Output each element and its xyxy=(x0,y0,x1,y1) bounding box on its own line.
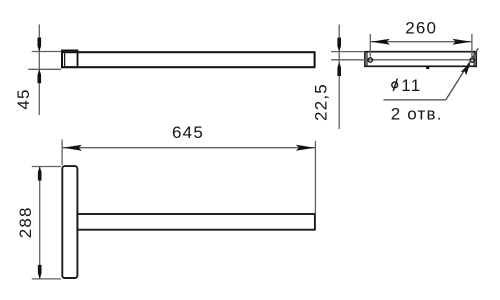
dimension 645: left arrow xyxy=(63,145,82,151)
svg-text:260: 260 xyxy=(405,19,437,38)
svg-text:45: 45 xyxy=(14,88,33,109)
dimension 288: bottom arrow xyxy=(38,265,42,279)
svg-text:22,5: 22,5 xyxy=(312,83,331,121)
plan-view rail outline xyxy=(365,52,476,67)
dimension 260: right extension line xyxy=(471,34,473,58)
dimension 22,5: lower arrow xyxy=(337,62,341,76)
dimension 645: dimension line xyxy=(62,147,315,149)
diameter symbol xyxy=(392,79,398,91)
dimension 45: upper arrow xyxy=(38,38,42,52)
dimension 645: right arrow xyxy=(296,145,315,151)
plan-view left end inner line xyxy=(366,52,368,67)
side-view left end cap (step) xyxy=(62,50,78,67)
dimension 645: right extension line xyxy=(314,141,316,213)
hole callout leader diagonal xyxy=(446,48,479,100)
left hole xyxy=(368,58,372,62)
dimension 45: dimension line xyxy=(38,24,40,115)
dimension 45: top extension line xyxy=(32,51,62,53)
small tick below plan view xyxy=(426,66,429,69)
svg-text:645: 645 xyxy=(172,123,204,142)
side-view bar body xyxy=(62,52,315,67)
plan-view hole centerline xyxy=(331,59,476,61)
dimension 260: dimension line xyxy=(370,41,472,43)
dimension 22,5: dimension line xyxy=(338,25,340,130)
dimension 288: dimension line xyxy=(39,167,41,279)
dimension 22,5: upper arrow xyxy=(337,38,341,52)
dimension 260: left extension line xyxy=(369,34,371,57)
dimension 288: top arrow xyxy=(38,167,42,181)
svg-text:11: 11 xyxy=(401,76,421,95)
dimension 260: right arrow xyxy=(452,39,471,45)
hole callout leader arrowhead xyxy=(461,61,474,76)
dimension 645: left extension line xyxy=(61,140,63,166)
dimension 45: lower arrow xyxy=(38,69,42,83)
hole callout leader shelf xyxy=(384,99,446,101)
side-view wall plate edge line xyxy=(64,50,66,67)
right hole xyxy=(470,58,474,62)
svg-text:288: 288 xyxy=(16,206,35,238)
dimension 45: bottom extension line xyxy=(28,68,61,70)
dimension 260: left arrow xyxy=(371,39,390,45)
dimension 288: bottom extension line xyxy=(32,278,61,280)
dimension 288: top extension line xyxy=(32,166,61,168)
front-view wall plate xyxy=(62,166,77,278)
front-view bar xyxy=(77,214,315,230)
svg-text:2 отв.: 2 отв. xyxy=(391,104,443,123)
plan-view right end inner line xyxy=(473,52,475,67)
plan-view top edge extension to side view xyxy=(331,51,365,53)
